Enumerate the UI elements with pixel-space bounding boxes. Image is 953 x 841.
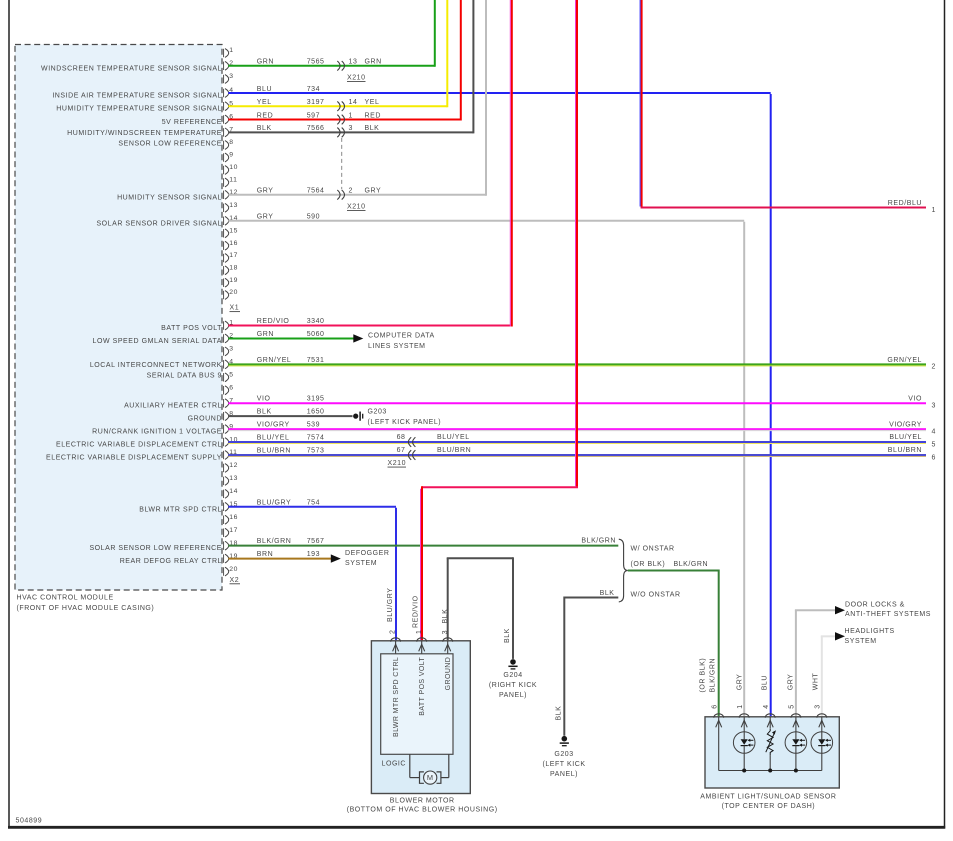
svg-text:HUMIDITY/WINDSCREEN TEMPERATUR: HUMIDITY/WINDSCREEN TEMPERATURE	[67, 130, 222, 137]
wire BLK (blower motor pin 3 to ground G204)	[447, 557, 513, 659]
svg-text:3: 3	[349, 125, 353, 132]
blower motor (bottom of HVAC blower housing)	[347, 641, 498, 814]
svg-text:17: 17	[229, 252, 238, 259]
svg-text:INSIDE AIR TEMPERATURE SENSOR: INSIDE AIR TEMPERATURE SENSOR SIGNAL	[52, 93, 222, 100]
svg-text:18: 18	[229, 265, 238, 272]
svg-text:1: 1	[737, 704, 744, 708]
svg-text:COMPUTER DATA: COMPUTER DATA	[368, 332, 435, 339]
svg-text:3: 3	[442, 630, 449, 634]
svg-text:WINDSCREEN TEMPERATURE SENSOR: WINDSCREEN TEMPERATURE SENSOR SIGNAL	[41, 65, 222, 72]
svg-text:GRY: GRY	[787, 674, 794, 691]
svg-text:5: 5	[229, 372, 233, 379]
svg-text:1: 1	[416, 630, 423, 634]
svg-text:DOOR LOCKS &: DOOR LOCKS &	[845, 602, 905, 609]
svg-text:BATT POS VOLT: BATT POS VOLT	[419, 656, 426, 715]
blower logic block	[381, 654, 453, 768]
svg-text:14: 14	[229, 488, 238, 495]
svg-text:GRN: GRN	[365, 59, 382, 66]
diagram number 504899	[16, 818, 43, 825]
svg-text:VIO: VIO	[908, 396, 922, 403]
svg-text:13: 13	[349, 59, 358, 66]
svg-text:GRN/YEL: GRN/YEL	[887, 357, 922, 364]
svg-text:2: 2	[349, 188, 353, 195]
svg-text:19: 19	[229, 277, 238, 284]
ambient light/sunload sensor (top center of dash)	[700, 717, 839, 810]
svg-text:539: 539	[307, 422, 320, 429]
blower motor pin 3 entry (GROUND)	[442, 609, 453, 654]
svg-text:HVAC CONTROL MODULE: HVAC CONTROL MODULE	[17, 595, 114, 602]
svg-text:BATT POS VOLT: BATT POS VOLT	[161, 325, 222, 332]
svg-text:17: 17	[229, 527, 238, 534]
svg-text:BLK/GRN: BLK/GRN	[581, 537, 616, 544]
svg-text:BLU/BRN: BLU/BRN	[888, 447, 922, 454]
svg-text:BLWR MTR SPD CTRL: BLWR MTR SPD CTRL	[393, 657, 400, 737]
svg-text:20: 20	[229, 289, 238, 296]
wire BLK 7566 (X1 pin 7 to X210 pin 3, sensor low ref)	[228, 0, 473, 137]
ground G203 (left kick panel)	[542, 736, 585, 778]
svg-text:(FRONT OF HVAC MODULE CASING): (FRONT OF HVAC MODULE CASING)	[17, 605, 155, 612]
svg-text:13: 13	[229, 475, 238, 482]
svg-text:BLWR MTR SPD CTRL: BLWR MTR SPD CTRL	[139, 506, 222, 513]
svg-text:3: 3	[815, 704, 822, 708]
svg-text:W/O ONSTAR: W/O ONSTAR	[631, 591, 681, 598]
blower motor M symbol	[410, 754, 449, 784]
svg-text:VIO: VIO	[257, 396, 271, 403]
HVAC control module (front of HVAC module casing)	[15, 45, 222, 613]
svg-text:5: 5	[932, 441, 936, 448]
svg-text:RUN/CRANK IGNITION 1 VOLTAGE: RUN/CRANK IGNITION 1 VOLTAGE	[92, 429, 222, 436]
svg-text:BLK/GRN: BLK/GRN	[709, 658, 716, 693]
svg-text:2: 2	[932, 364, 936, 371]
svg-text:BLU/BRN: BLU/BRN	[257, 448, 291, 455]
svg-text:6: 6	[712, 704, 719, 708]
svg-text:7567: 7567	[307, 538, 325, 545]
svg-text:BLU: BLU	[762, 675, 769, 690]
svg-text:DEFOGGER: DEFOGGER	[345, 550, 389, 557]
svg-text:X1: X1	[230, 305, 240, 312]
wire BLU/YEL 7574 (X2 pin 10 through X210 pin 68, net 5)	[228, 434, 936, 449]
svg-text:HUMIDITY SENSOR SIGNAL: HUMIDITY SENSOR SIGNAL	[117, 194, 222, 201]
svg-text:X2: X2	[230, 577, 240, 584]
sensor photodiode D2 (pin 5)	[785, 717, 807, 771]
svg-text:10: 10	[229, 164, 238, 171]
svg-text:G203: G203	[368, 409, 387, 416]
svg-text:GRN: GRN	[257, 331, 274, 338]
svg-text:SENSOR LOW REFERENCE: SENSOR LOW REFERENCE	[118, 140, 222, 147]
svg-text:PANEL): PANEL)	[550, 771, 578, 778]
svg-text:M: M	[427, 773, 434, 782]
svg-text:RED/VIO: RED/VIO	[257, 318, 290, 325]
svg-text:GRN/YEL: GRN/YEL	[257, 357, 292, 364]
svg-text:754: 754	[307, 499, 320, 506]
svg-text:BLK: BLK	[556, 706, 563, 721]
sensor pin 4 entry (BLU)	[762, 675, 776, 727]
wire BLU 734 (X1 pin 4 to sunload sensor pin 4)	[228, 86, 770, 716]
wire VIO/GRY 539 (X2 pin 9, run/crank ignition voltage, net 4)	[228, 422, 936, 436]
svg-text:LOCAL INTERCONNECT NETWORK: LOCAL INTERCONNECT NETWORK	[90, 362, 222, 369]
svg-text:1650: 1650	[307, 409, 325, 416]
svg-text:1: 1	[229, 47, 233, 54]
svg-text:5060: 5060	[307, 331, 325, 338]
svg-text:(LEFT KICK: (LEFT KICK	[542, 761, 585, 768]
svg-text:7531: 7531	[307, 357, 325, 364]
svg-text:12: 12	[229, 462, 238, 469]
svg-text:ANTI-THEFT SYSTEMS: ANTI-THEFT SYSTEMS	[845, 611, 931, 618]
sensor pin 5 entry (GRY)	[787, 674, 801, 728]
svg-text:SYSTEM: SYSTEM	[845, 638, 877, 645]
svg-text:SYSTEM: SYSTEM	[345, 560, 377, 567]
svg-text:68: 68	[397, 434, 406, 441]
svg-text:BLU/GRY: BLU/GRY	[257, 499, 291, 506]
wire GRN/YEL 7531 (X2 pin 4, LIN bus 9, to right edge net 2)	[228, 357, 936, 371]
sensor pin 3 entry (WHT)	[812, 673, 826, 728]
svg-text:BLU/GRY: BLU/GRY	[387, 588, 394, 622]
svg-text:X210: X210	[347, 74, 366, 81]
svg-text:(RIGHT KICK: (RIGHT KICK	[489, 682, 537, 689]
wire GRN 5060 (X2 pin 2, GMLAN serial data to computer data lines system)	[228, 331, 434, 350]
svg-text:PANEL): PANEL)	[499, 692, 527, 699]
svg-text:X210: X210	[347, 203, 366, 210]
svg-text:(BOTTOM OF HVAC BLOWER HOUSING: (BOTTOM OF HVAC BLOWER HOUSING)	[347, 807, 498, 814]
svg-text:GRY: GRY	[737, 674, 744, 691]
svg-text:LINES SYSTEM: LINES SYSTEM	[368, 343, 426, 350]
svg-text:HUMIDITY TEMPERATURE SENSOR SI: HUMIDITY TEMPERATURE SENSOR SIGNAL	[56, 106, 222, 113]
svg-text:BLU/YEL: BLU/YEL	[889, 434, 922, 441]
svg-text:LOW SPEED GMLAN SERIAL DATA: LOW SPEED GMLAN SERIAL DATA	[93, 338, 222, 345]
sensor photodiode D3 (pin 3)	[811, 717, 833, 771]
svg-text:REAR DEFOG RELAY CTRL: REAR DEFOG RELAY CTRL	[120, 558, 222, 565]
svg-text:193: 193	[307, 551, 320, 558]
svg-text:6: 6	[932, 454, 936, 461]
svg-text:YEL: YEL	[365, 99, 380, 106]
svg-text:16: 16	[229, 514, 238, 521]
ground G204 (right kick panel)	[489, 659, 537, 699]
svg-text:BLU/YEL: BLU/YEL	[437, 434, 470, 441]
svg-text:YEL: YEL	[257, 99, 272, 106]
wire GRY 590 (X1 pin 14 to sunload sensor pin 1, solar driver)	[228, 214, 744, 717]
svg-text:ELECTRIC VARIABLE DISPLACEMENT: ELECTRIC VARIABLE DISPLACEMENT CTRL	[56, 442, 222, 449]
svg-text:BLK: BLK	[504, 628, 511, 643]
svg-text:1: 1	[932, 207, 936, 214]
svg-text:SOLAR SENSOR DRIVER SIGNAL: SOLAR SENSOR DRIVER SIGNAL	[96, 220, 222, 227]
sensor pin 6 entry ((OR BLK) BLK/GRN)	[700, 658, 724, 728]
svg-text:7565: 7565	[307, 59, 325, 66]
wire YEL 3197 (X1 pin 5 to X210 pin 14)	[228, 0, 447, 111]
svg-text:BLK: BLK	[365, 125, 380, 132]
svg-text:BLU/YEL: BLU/YEL	[257, 435, 290, 442]
svg-text:8: 8	[229, 139, 233, 146]
svg-text:3197: 3197	[307, 99, 325, 106]
svg-text:BLK: BLK	[442, 609, 449, 624]
svg-text:HEADLIGHTS: HEADLIGHTS	[845, 628, 895, 635]
svg-text:4: 4	[763, 704, 770, 708]
wire VIO 3195 (X2 pin 7, auxiliary heater ctrl, to right edge net 3)	[228, 396, 936, 410]
svg-text:9: 9	[229, 152, 233, 159]
svg-text:VIO/GRY: VIO/GRY	[889, 422, 922, 429]
svg-text:15: 15	[229, 228, 238, 235]
svg-text:20: 20	[229, 566, 238, 573]
svg-text:G203: G203	[554, 751, 573, 758]
svg-text:BLK/GRN: BLK/GRN	[674, 561, 709, 568]
wire BLK 1650 (X2 pin 8) to ground G203 left kick panel	[228, 409, 441, 427]
svg-text:LOGIC: LOGIC	[382, 760, 407, 767]
svg-text:SOLAR SENSOR LOW REFERENCE: SOLAR SENSOR LOW REFERENCE	[89, 545, 222, 552]
connector X2 pins 1-20	[224, 320, 240, 584]
svg-text:BLK: BLK	[257, 409, 272, 416]
svg-text:14: 14	[349, 99, 358, 106]
HVAC module pin function labels	[41, 65, 222, 565]
svg-text:(TOP CENTER OF DASH): (TOP CENTER OF DASH)	[722, 803, 816, 810]
svg-text:AMBIENT LIGHT/SUNLOAD SENSOR: AMBIENT LIGHT/SUNLOAD SENSOR	[700, 794, 836, 801]
blower motor pin 1 entry (BATT POS VOLT)	[416, 630, 427, 654]
svg-text:AUXILIARY HEATER CTRL: AUXILIARY HEATER CTRL	[124, 403, 222, 410]
svg-text:11: 11	[229, 177, 237, 184]
svg-text:RED: RED	[365, 112, 381, 119]
svg-text:G204: G204	[503, 672, 522, 679]
wire BRN 193 (X2 pin 19, rear defog relay ctrl to defogger system)	[228, 550, 389, 567]
svg-text:3340: 3340	[307, 318, 325, 325]
wire BLK w/o OnStar (to ground G203)	[556, 590, 619, 736]
svg-text:BLK: BLK	[257, 125, 272, 132]
svg-text:7564: 7564	[307, 188, 325, 195]
connector X210 body (dashed link)	[341, 138, 343, 189]
svg-text:BLOWER MOTOR: BLOWER MOTOR	[390, 798, 455, 805]
connector X1 pins 1-20	[224, 47, 240, 311]
svg-text:3195: 3195	[307, 396, 325, 403]
sensor pin 1 entry (GRY)	[737, 674, 750, 728]
svg-text:5: 5	[789, 704, 796, 708]
wire BLU/GRY 754 (X2 pin 15, blower motor speed ctrl)	[228, 499, 396, 640]
svg-text:X210: X210	[388, 460, 407, 467]
svg-text:(LEFT KICK PANEL): (LEFT KICK PANEL)	[368, 419, 442, 426]
svg-text:ELECTRIC VARIABLE DISPLACEMENT: ELECTRIC VARIABLE DISPLACEMENT SUPPLY	[46, 455, 222, 462]
svg-text:3: 3	[229, 346, 233, 353]
svg-text:WHT: WHT	[812, 673, 819, 691]
svg-text:BLU/BRN: BLU/BRN	[437, 447, 471, 454]
wire BLU/BRN 7573 (X2 pin 11 through X210 pin 67, net 6)	[228, 447, 936, 467]
svg-text:16: 16	[229, 240, 238, 247]
svg-text:4: 4	[932, 428, 936, 435]
wire WHT (sunload sensor pin 3 to headlights system)	[821, 628, 895, 716]
svg-text:BRN: BRN	[257, 551, 273, 558]
svg-text:7573: 7573	[307, 448, 325, 455]
svg-text:734: 734	[307, 86, 320, 93]
svg-text:RED: RED	[257, 112, 273, 119]
svg-text:3: 3	[229, 73, 233, 80]
svg-text:BLK: BLK	[600, 590, 615, 597]
wire RED 597 (X1 pin 6 to X210 pin 1, 5V reference)	[228, 0, 460, 124]
svg-text:67: 67	[397, 447, 406, 454]
svg-text:GROUND: GROUND	[188, 416, 222, 423]
svg-text:GRY: GRY	[365, 188, 382, 195]
wire GRY (sunload sensor pin 5 to door locks / anti-theft systems)	[795, 602, 931, 717]
svg-text:GROUND: GROUND	[445, 657, 452, 691]
svg-text:7566: 7566	[307, 125, 325, 132]
svg-text:W/ ONSTAR: W/ ONSTAR	[631, 546, 675, 553]
wire BLK/GRN 7567 (X2 pin 18, solar sensor low reference)	[228, 537, 618, 545]
svg-text:RED/BLU: RED/BLU	[888, 200, 922, 207]
wire RED/VIO 3340 (X2 pin 1, batt pos volt, to top)	[228, 0, 512, 327]
wire GRN 7565 (X1 pin 2 to X210 pin 13, windscreen temp signal)	[228, 0, 434, 81]
blower motor pin 2 entry (BLWR MTR SPD CTRL)	[387, 588, 401, 654]
wire (OR BLK) BLK/GRN merged (to sunload sensor pin 6)	[628, 570, 719, 717]
wire GRY 7564 (X1 pin 12 to X210 pin 2, humidity sensor signal)	[228, 0, 486, 210]
svg-text:SERIAL DATA BUS 9: SERIAL DATA BUS 9	[147, 372, 222, 379]
svg-text:590: 590	[307, 214, 320, 221]
svg-text:6: 6	[229, 384, 233, 391]
svg-text:GRY: GRY	[257, 214, 274, 221]
sensor photoresistor (pin 4)	[766, 717, 776, 771]
svg-text:GRN: GRN	[257, 59, 274, 66]
sensor photodiode D1 (pin 1)	[733, 717, 755, 771]
svg-text:BLU: BLU	[257, 86, 272, 93]
brace joining OnStar wire options	[619, 539, 708, 602]
svg-text:504899: 504899	[16, 818, 43, 825]
svg-text:5V REFERENCE: 5V REFERENCE	[162, 119, 222, 126]
svg-text:GRY: GRY	[257, 188, 274, 195]
svg-text:2: 2	[390, 630, 397, 634]
svg-text:(OR BLK): (OR BLK)	[631, 561, 666, 568]
sensor internal ground bus	[719, 717, 822, 773]
wire RED/BLU (from top, to right edge net 1)	[640, 0, 936, 214]
svg-text:VIO/GRY: VIO/GRY	[257, 422, 290, 429]
svg-text:7574: 7574	[307, 435, 325, 442]
svg-text:597: 597	[307, 112, 320, 119]
svg-text:BLK/GRN: BLK/GRN	[257, 538, 292, 545]
svg-text:1: 1	[349, 112, 353, 119]
svg-text:(OR BLK): (OR BLK)	[700, 658, 707, 693]
wire RED/VIO (from top to blower motor pin 1, batt pos volt)	[413, 0, 578, 640]
svg-text:13: 13	[229, 202, 238, 209]
svg-text:3: 3	[932, 403, 936, 410]
svg-text:RED/VIO: RED/VIO	[413, 595, 420, 628]
